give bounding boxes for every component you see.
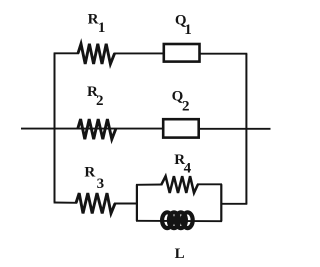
svg-text:1: 1 (184, 22, 192, 38)
label Q1 (175, 12, 192, 38)
svg-text:1: 1 (98, 20, 106, 36)
wire parallel group to right rail (221, 203, 248, 205)
wire R4 to right bar (197, 183, 222, 185)
resistor R2 (78, 119, 116, 139)
svg-text:3: 3 (97, 176, 105, 192)
svg-text:4: 4 (184, 161, 192, 177)
resistor R1 (78, 44, 115, 64)
wire top branch left stub (54, 52, 79, 54)
label R1 (88, 12, 106, 36)
label R2 (87, 84, 104, 109)
node right bar of R4/L parallel group (220, 184, 222, 221)
svg-text:2: 2 (96, 93, 104, 109)
label R3 (84, 164, 104, 192)
box Q1 (164, 44, 200, 62)
wire top path to R4 (136, 184, 163, 186)
resistor R3 (76, 193, 115, 213)
wire middle branch (full width) (21, 128, 271, 130)
wire bottom path (L branch) (136, 220, 222, 222)
svg-text:R: R (84, 164, 95, 180)
svg-text:2: 2 (182, 98, 190, 114)
box Q2 (163, 119, 199, 137)
label L (175, 246, 185, 262)
wire R3 to parallel group (114, 203, 138, 205)
right rail (245, 54, 247, 204)
svg-text:L: L (175, 246, 185, 262)
node left bar of R4/L parallel group (136, 185, 138, 221)
wire Q1 to right rail (200, 53, 247, 55)
wire R1 to Q1 (114, 52, 163, 54)
label Q2 (172, 89, 190, 115)
wire bottom branch left stub (54, 202, 77, 204)
resistor R4 (161, 176, 198, 193)
left rail (54, 53, 56, 202)
label R4 (174, 152, 191, 177)
inductor L (162, 212, 193, 228)
